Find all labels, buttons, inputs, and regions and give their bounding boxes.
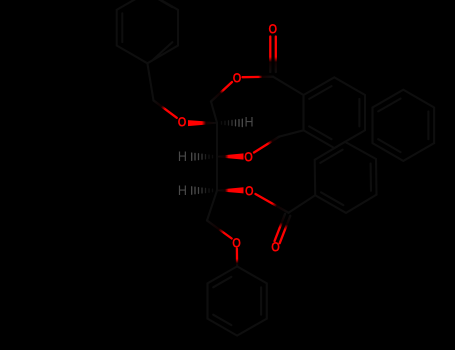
hash wedge C2 to H: [222, 119, 243, 126]
hash wedge C3 to H: [192, 153, 213, 160]
benzene ring bottom (phenyl on O5): [208, 266, 267, 335]
svg-text:H: H: [178, 182, 187, 198]
wire O2 to benzyl CH2: [154, 100, 177, 117]
wire C5 to O5: [207, 221, 232, 239]
wire ester O1 to carbonyl C (horizontal): [243, 76, 274, 79]
svg-text:O: O: [271, 238, 280, 255]
wire carbonyl C to ring1 ipso: [273, 77, 304, 95]
svg-text:O: O: [178, 113, 187, 130]
benzene ring top-left (benzyl on C2), clipped at top: [117, 0, 178, 63]
wedge C4 to O4 (solid): [217, 187, 244, 193]
wedge C3 to O3 (solid): [217, 153, 244, 159]
svg-text:H: H: [178, 149, 187, 165]
svg-text:O: O: [232, 234, 241, 251]
wire O4 to carbonyl C (bottom benzoate): [256, 194, 289, 213]
svg-text:O: O: [268, 20, 277, 37]
svg-text:H: H: [244, 114, 253, 130]
svg-text:O: O: [244, 148, 253, 165]
hash wedge C4 to H: [192, 187, 213, 194]
carbonyl C=O double bond (vertical, top benzoate): [269, 37, 271, 73]
wire CH2 to phenyl (benzyl C2): [147, 63, 153, 100]
benzene ring 1 (top benzoate phenyl): [304, 77, 366, 148]
svg-text:O: O: [245, 182, 254, 199]
backbone C1-C2-C3-C4-C5: [207, 102, 217, 221]
wire O5 down to phenyl ring: [236, 249, 239, 267]
wire O3 to CH2: [254, 137, 279, 153]
carbonyl C=O double bond (bottom benzoate): [280, 216, 291, 243]
wire C1 up-right to ester O1: [211, 82, 232, 102]
wedge C2 to O2 (solid, red fading): [188, 120, 217, 126]
svg-text:O: O: [233, 69, 242, 86]
wire carbonyl C to ring2 ipso: [289, 195, 316, 213]
wire O3-CH2 to ring1 lower-left vertex: [279, 130, 303, 136]
benzene ring C (far right): [373, 90, 435, 161]
benzene ring 2 (bottom benzoate phenyl): [315, 142, 377, 213]
